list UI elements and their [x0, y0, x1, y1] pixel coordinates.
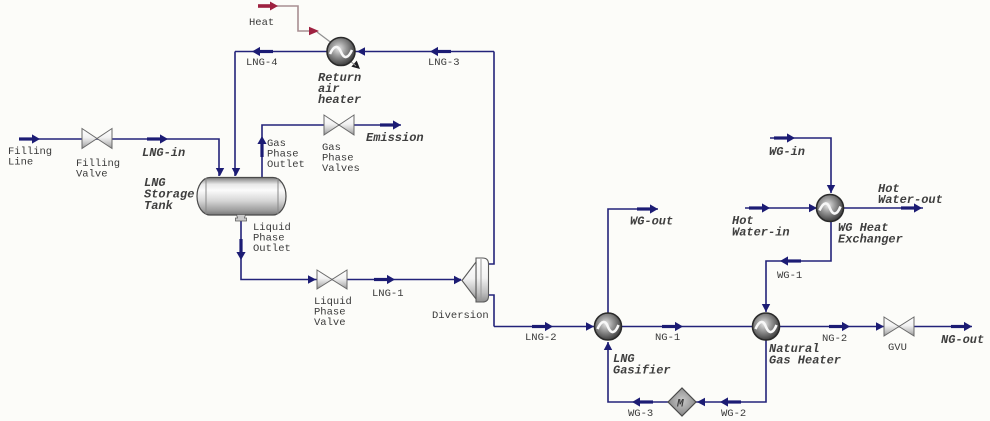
- arrowhead into liquid phase valve: [308, 275, 316, 283]
- wire: LNG-3 riser from diversion: [488, 52, 494, 265]
- stream arrow: WG-2: [720, 397, 741, 406]
- svg-text:GVU: GVU: [888, 342, 907, 354]
- svg-text:M: M: [676, 399, 684, 411]
- valve: Gas Phase Valves: [324, 115, 354, 135]
- wire: hot water in: [745, 207, 817, 209]
- arrowhead into diversion: [454, 276, 462, 284]
- wire: LNG-4 top line and drop to tank: [235, 52, 494, 177]
- arrowhead into WG HX left: [809, 204, 817, 212]
- wire: gas phase outlet to emission: [262, 125, 401, 178]
- arrowhead into tank (LNG-4): [232, 168, 240, 176]
- svg-text:LNG-2: LNG-2: [525, 332, 557, 344]
- stream arrow: NG-out: [951, 322, 972, 331]
- wire: WG-1 from exchanger to heater: [766, 221, 831, 312]
- arrowhead into return air heater: [357, 47, 365, 55]
- wire: WG-out riser: [608, 209, 658, 314]
- arrowhead into WG HX top: [827, 185, 835, 193]
- stream arrow: WG-out: [637, 204, 658, 213]
- svg-text:NG-out: NG-out: [941, 333, 984, 347]
- heat exchanger: LNG Gasifier: [595, 313, 622, 340]
- diversion cone: [476, 258, 489, 302]
- wire: liquid phase outlet to diversion: [241, 219, 461, 280]
- heat exchanger: WG Heat Exchanger: [817, 195, 844, 222]
- svg-text:NG-2: NG-2: [822, 333, 847, 345]
- stream arrow: LNG-4: [252, 47, 273, 56]
- stream arrow: gas phase outlet up: [257, 136, 266, 157]
- arrowhead into LNG gasifier: [586, 322, 594, 330]
- svg-text:LNG-1: LNG-1: [372, 288, 404, 300]
- mixer M: [668, 388, 696, 416]
- svg-text:Heat: Heat: [249, 17, 274, 29]
- wire: main gas line LNG-2 to NG-out: [494, 326, 972, 328]
- stream arrow: WG-1: [780, 256, 801, 265]
- tank bottom nozzle: [236, 215, 247, 222]
- svg-text:WG-3: WG-3: [628, 408, 653, 420]
- svg-text:LNG-in: LNG-in: [142, 146, 185, 160]
- arrowhead into tank (LNG-in): [216, 168, 224, 176]
- heat exchanger: Natural Gas Heater: [753, 313, 780, 340]
- wire: filling line to tank: [21, 139, 219, 176]
- stream arrow: LNG-in: [147, 134, 168, 143]
- stream arrow: LNG-3: [430, 47, 451, 56]
- svg-text:Emission: Emission: [366, 131, 424, 145]
- arrowhead into GVU: [876, 322, 884, 330]
- valve: Liquid Phase Valve: [317, 270, 347, 289]
- arrowhead into gasifier bottom: [604, 342, 612, 350]
- stream arrow: WG-3: [632, 397, 653, 406]
- svg-text:NG-1: NG-1: [655, 332, 680, 344]
- stream arrow: Filling Line: [19, 134, 40, 143]
- svg-text:WG-in: WG-in: [769, 145, 805, 159]
- valve: GVU: [884, 317, 914, 336]
- stream arrow: liquid phase outlet down: [236, 239, 245, 260]
- svg-text:WG-out: WG-out: [630, 215, 673, 229]
- arrowhead into NG heater top: [762, 304, 770, 312]
- valve: Filling Valve: [82, 129, 112, 149]
- stream arrow: Hot Water-out: [901, 203, 922, 212]
- stream arrow: LNG-2: [532, 322, 553, 331]
- heater outlet deco arrow: [351, 61, 362, 72]
- svg-text:WG-2: WG-2: [721, 408, 746, 420]
- arrowhead into mixer: [697, 398, 705, 406]
- stream arrow: Emission: [380, 120, 401, 129]
- LNG storage tank: [197, 178, 286, 216]
- wire: hot water out: [844, 207, 923, 209]
- heat energy stream (red): [276, 6, 317, 31]
- stream arrow: NG-2: [829, 322, 850, 331]
- heat exchanger: Return air heater U1: [327, 38, 355, 66]
- stream arrow: NG-1: [662, 322, 683, 331]
- stream arrow: Hot Water-in: [749, 203, 770, 212]
- svg-text:LNG-3: LNG-3: [428, 57, 460, 69]
- wire: diversion bottom outlet to LNG-2: [488, 295, 494, 327]
- svg-text:Diversion: Diversion: [432, 310, 489, 322]
- svg-text:LNG-4: LNG-4: [246, 57, 278, 69]
- stream arrow: WG-in: [774, 133, 795, 142]
- wire: WG loop bottom: [608, 340, 766, 402]
- svg-text:WG-1: WG-1: [777, 270, 802, 282]
- stream arrow: LNG-1: [374, 275, 395, 284]
- wire: WG-in: [770, 138, 831, 193]
